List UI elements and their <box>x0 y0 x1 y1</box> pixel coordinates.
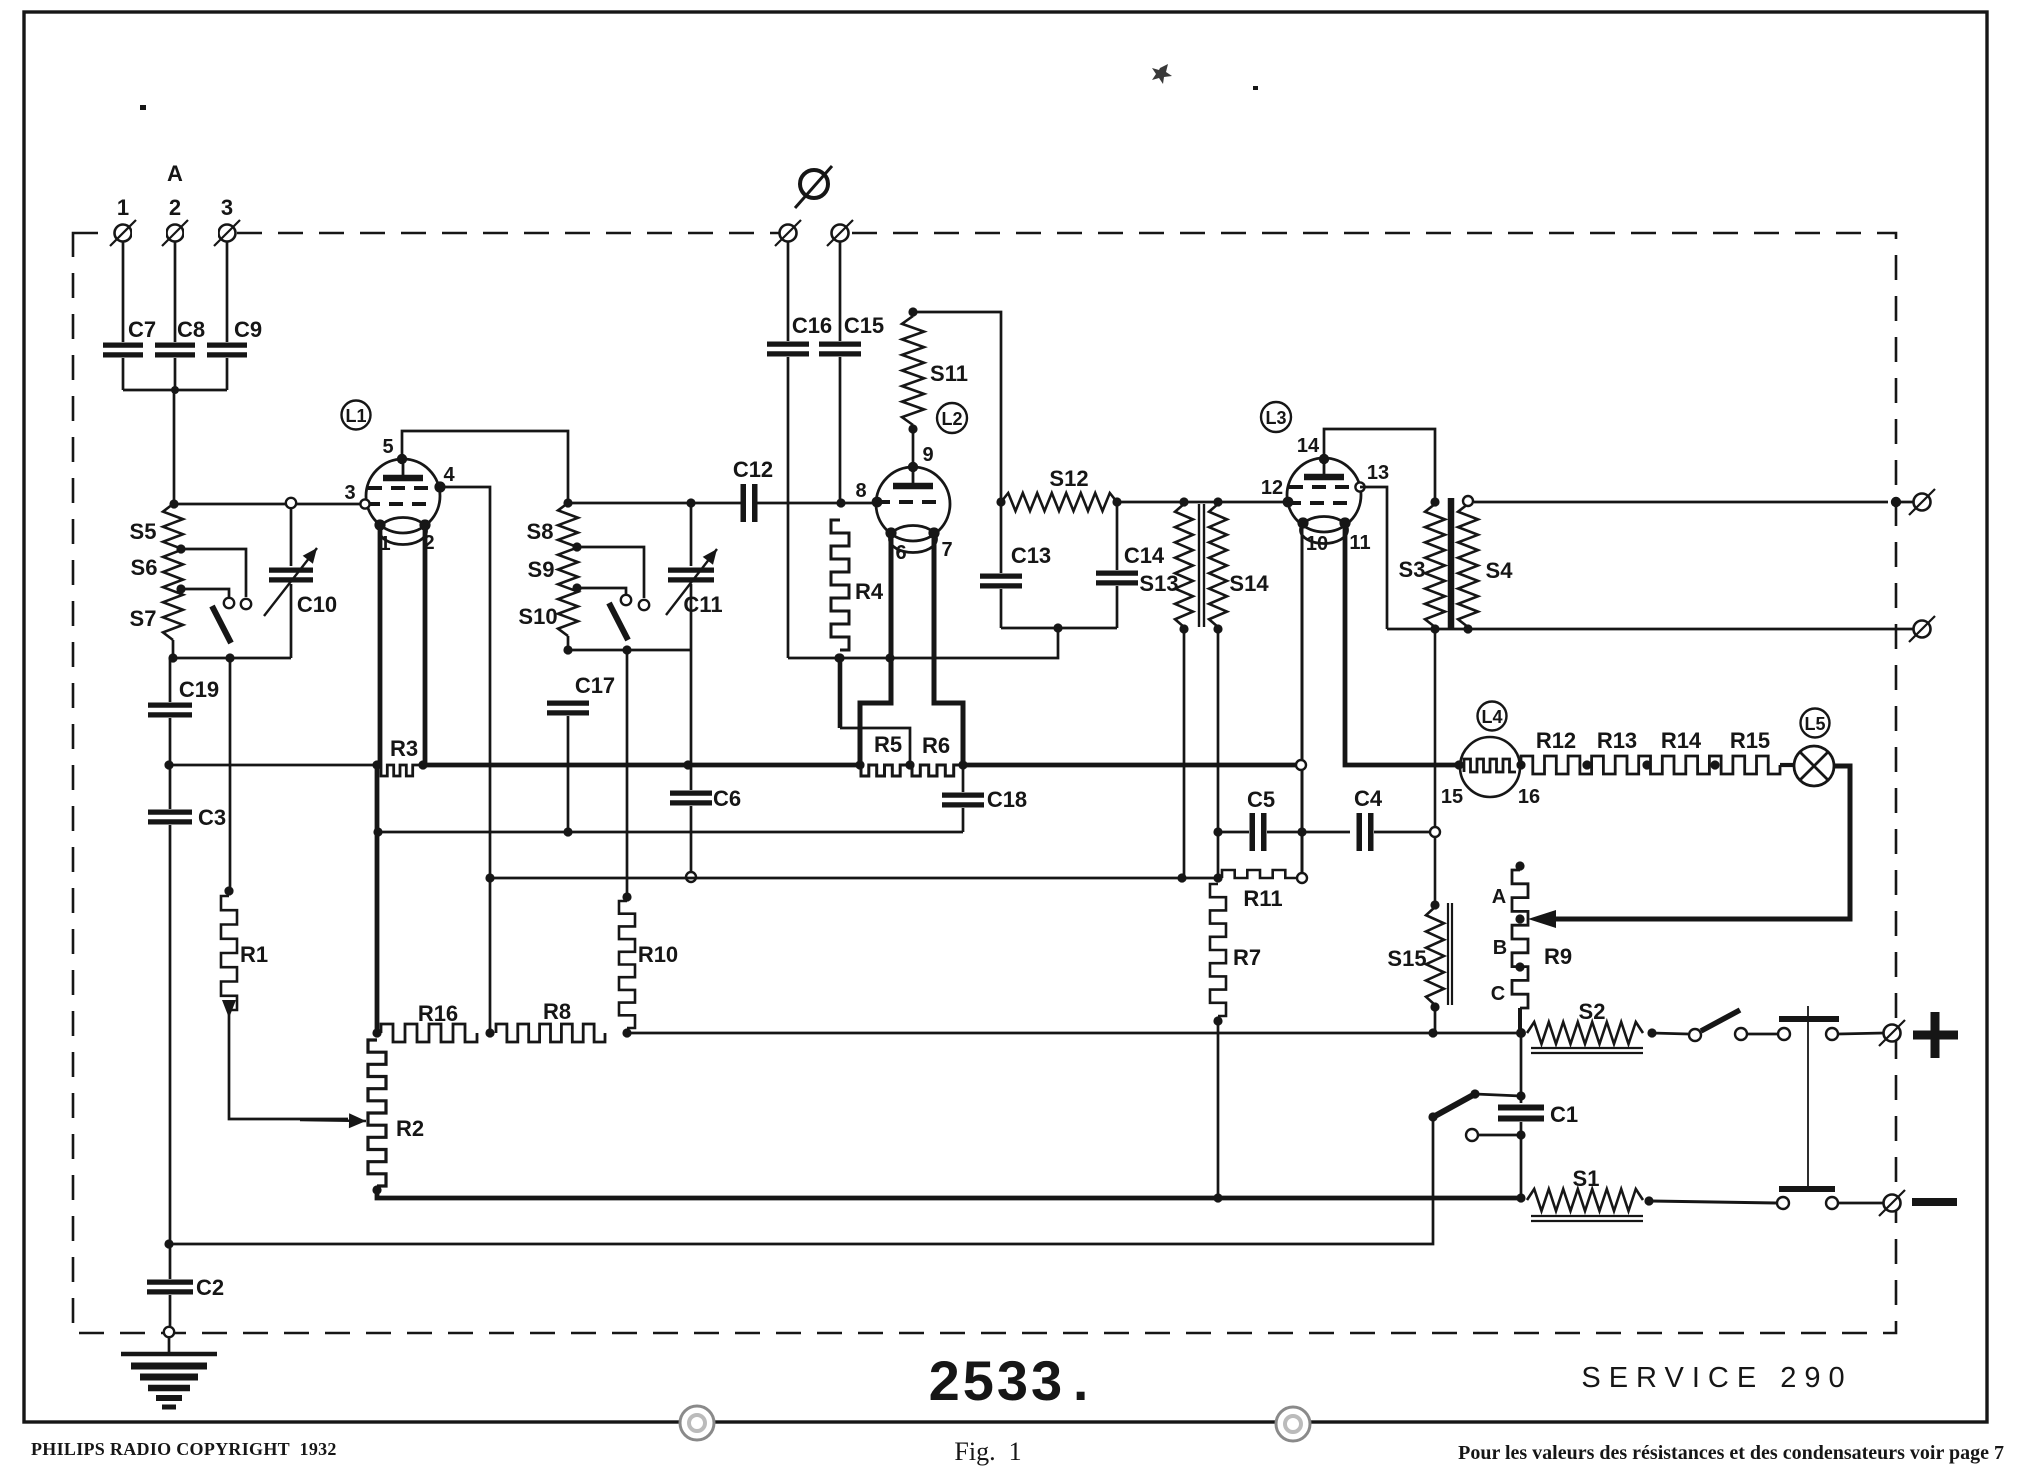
svg-text:R5: R5 <box>874 732 902 757</box>
wire <box>181 549 246 597</box>
node <box>225 653 234 662</box>
terminal 2 <box>162 220 188 246</box>
tube L2 <box>876 467 950 553</box>
svg-text:R8: R8 <box>543 999 571 1024</box>
wire <box>169 1244 172 1279</box>
svg-text:PHILIPS RADIO COPYRIGHT 1932: PHILIPS RADIO COPYRIGHT 1932 <box>31 1439 337 1459</box>
tube L1 pin 4 <box>434 481 445 492</box>
wire lamp loop <box>1540 766 1850 919</box>
switch contact <box>224 598 234 608</box>
node <box>372 760 381 769</box>
wire <box>567 716 570 832</box>
wire <box>839 241 842 341</box>
coil S15 <box>1426 907 1444 1005</box>
svg-text:13: 13 <box>1367 462 1389 484</box>
tube L3 pin 12 <box>1283 497 1294 508</box>
wire pin13 branch <box>1360 487 1387 629</box>
arrow into R2 <box>300 1113 366 1128</box>
svg-text:S12: S12 <box>1049 466 1088 491</box>
svg-text:14: 14 <box>1297 435 1320 457</box>
node <box>1516 1091 1525 1100</box>
svg-text:C13: C13 <box>1011 543 1051 568</box>
capacitor C8 <box>155 345 195 355</box>
terminal 3 <box>214 220 240 246</box>
capacitor C6 <box>670 793 712 803</box>
coil S1 core <box>1531 1216 1643 1221</box>
node <box>168 653 177 662</box>
tube L2 pin 7 <box>928 527 939 538</box>
node <box>1582 760 1591 769</box>
resistor R7 <box>1210 884 1226 1016</box>
tube L1 label <box>342 401 371 430</box>
resistor R16 <box>381 1024 477 1042</box>
svg-text:2533 .: 2533 . <box>929 1349 1092 1412</box>
capacitor C2 <box>147 1282 193 1292</box>
terminal output 2 <box>1909 616 1935 642</box>
node <box>1179 624 1188 633</box>
wire <box>1838 1033 1884 1034</box>
node <box>171 386 179 394</box>
chassis dashed boundary <box>73 233 1896 1333</box>
node <box>1644 1196 1653 1205</box>
resistor R10 <box>619 901 635 1028</box>
node <box>996 497 1005 506</box>
capacitor C5 <box>1252 813 1264 851</box>
wire <box>568 649 691 652</box>
svg-text:1: 1 <box>117 195 129 220</box>
coil S2 <box>1527 1022 1643 1044</box>
svg-text:7: 7 <box>941 539 952 561</box>
wire <box>1520 1035 1523 1103</box>
capacitor C15 <box>819 344 861 354</box>
svg-text:C10: C10 <box>297 592 337 617</box>
wire <box>1117 501 1288 504</box>
node <box>855 760 864 769</box>
node <box>885 653 894 662</box>
capacitor C7 <box>103 345 143 355</box>
wire <box>1520 1122 1523 1198</box>
coil S3 <box>1425 504 1445 627</box>
node <box>1430 900 1439 909</box>
speck <box>1152 64 1258 90</box>
node contact <box>1430 827 1440 837</box>
svg-text:Fig. 1: Fig. 1 <box>954 1437 1021 1466</box>
svg-text:L4: L4 <box>1481 707 1502 727</box>
wire bus mid <box>423 763 861 768</box>
svg-text:C12: C12 <box>733 457 773 482</box>
wire <box>1116 502 1119 570</box>
resistor R8 <box>496 1024 605 1042</box>
wire <box>690 650 693 765</box>
wire pin4 branch <box>440 487 490 1033</box>
wire <box>787 357 790 658</box>
coil S8 S9 S10 chain <box>558 503 578 636</box>
node <box>1213 497 1222 506</box>
wire <box>626 650 629 897</box>
switch lever C1 <box>1435 1094 1475 1116</box>
svg-text:S2: S2 <box>1579 999 1606 1024</box>
wire <box>169 825 172 1244</box>
svg-text:S10: S10 <box>518 604 557 629</box>
switch contact <box>639 600 649 610</box>
node <box>372 1028 381 1037</box>
node tap S8/S9 <box>572 542 581 551</box>
wire <box>840 728 910 762</box>
svg-text:R3: R3 <box>390 736 418 761</box>
node <box>1454 760 1463 769</box>
punch hole mark 2 <box>1276 1407 1310 1441</box>
svg-text:C8: C8 <box>177 317 205 342</box>
transformer core S3/S4 <box>1448 498 1455 630</box>
wire <box>577 547 644 598</box>
svg-text:8: 8 <box>855 480 866 502</box>
svg-text:3: 3 <box>344 482 355 504</box>
switch contact <box>1778 1028 1790 1040</box>
svg-text:S5: S5 <box>130 519 157 544</box>
node contact <box>686 872 696 882</box>
switch contact <box>621 595 631 605</box>
node <box>1710 760 1719 769</box>
terminal gramo 1 <box>775 220 801 246</box>
wire <box>912 429 915 465</box>
node <box>1430 497 1439 506</box>
arrow into R9 <box>1528 910 1556 928</box>
node <box>1428 1028 1437 1037</box>
wire <box>1747 1033 1778 1036</box>
node <box>1297 827 1306 836</box>
svg-text:S15: S15 <box>1387 946 1426 971</box>
wire <box>690 584 693 650</box>
wire <box>229 1014 348 1119</box>
wire <box>226 241 229 342</box>
node <box>908 307 917 316</box>
switch contact <box>241 599 251 609</box>
terminal gramo 2 <box>827 220 853 246</box>
node <box>683 760 692 769</box>
wire <box>181 589 229 597</box>
node <box>164 1239 173 1248</box>
resistor R2 <box>368 1040 386 1186</box>
node <box>1428 1112 1437 1121</box>
transformer core S13/S14 <box>1199 504 1204 627</box>
svg-text:S9: S9 <box>528 557 555 582</box>
minus sign <box>1912 1198 1957 1206</box>
wire <box>567 636 570 650</box>
svg-text:5: 5 <box>382 436 393 458</box>
coil S14 <box>1209 504 1227 627</box>
svg-text:12: 12 <box>1261 477 1283 499</box>
node <box>563 827 572 836</box>
capacitor C4 <box>1359 813 1371 851</box>
node <box>1179 497 1188 506</box>
svg-text:R4: R4 <box>855 579 884 604</box>
wire <box>577 588 626 594</box>
svg-text:C18: C18 <box>987 787 1027 812</box>
node tap S5/S6 <box>176 544 185 553</box>
wire <box>1780 763 1795 767</box>
resistor R1 wiper arrow <box>222 1000 236 1018</box>
node <box>1647 1028 1656 1037</box>
svg-text:2: 2 <box>169 195 181 220</box>
wire pin5 top loop <box>402 431 568 503</box>
svg-text:C4: C4 <box>1354 786 1383 811</box>
terminal output 1 <box>1909 489 1935 515</box>
dash mask <box>132 226 831 240</box>
node <box>905 760 914 769</box>
svg-text:C: C <box>1491 983 1505 1005</box>
resistor R12 R13 R14 R15 chain <box>1521 756 1780 774</box>
node tap B <box>1515 962 1524 971</box>
svg-text:L3: L3 <box>1265 408 1286 428</box>
lamp L5 <box>1794 746 1834 786</box>
node chassis entry <box>164 1327 174 1337</box>
node <box>1213 624 1222 633</box>
node <box>958 760 967 769</box>
node <box>1430 1002 1439 1011</box>
coil L4 label <box>1478 702 1507 731</box>
capacitor C10 arrow <box>264 548 317 616</box>
wire <box>1838 1202 1884 1205</box>
wire R5R6 tap <box>838 658 843 728</box>
node <box>485 873 494 882</box>
node <box>286 498 296 508</box>
wire line 1033 <box>627 1032 1521 1035</box>
wire <box>962 765 965 792</box>
tube L3 label <box>1261 402 1291 432</box>
node <box>1516 1193 1525 1202</box>
capacitor C16 <box>767 344 809 354</box>
switch contact <box>1466 1129 1478 1141</box>
svg-text:R2: R2 <box>396 1116 424 1141</box>
node <box>686 498 695 507</box>
wire <box>1475 1094 1521 1096</box>
wire <box>1518 1008 1522 1031</box>
node <box>1891 497 1901 507</box>
wire <box>172 640 175 658</box>
wire <box>1652 1033 1688 1034</box>
svg-text:9: 9 <box>922 444 933 466</box>
svg-text:C11: C11 <box>683 592 722 617</box>
svg-text:11: 11 <box>1349 532 1370 554</box>
capacitor C1 <box>1498 1108 1544 1119</box>
wire output top <box>1474 501 1888 504</box>
wire <box>173 657 291 660</box>
node <box>834 653 843 662</box>
node tap S9/S10 <box>572 583 581 592</box>
coil S12 <box>1001 493 1117 511</box>
svg-text:S13: S13 <box>1139 571 1178 596</box>
node <box>1516 760 1525 769</box>
wire <box>290 504 293 566</box>
wire <box>174 358 177 390</box>
resistor R1 <box>221 896 237 1010</box>
wire <box>169 1117 1433 1244</box>
svg-text:6: 6 <box>895 542 906 564</box>
switch contact <box>1826 1028 1838 1040</box>
wire pin14 loop <box>1324 429 1435 502</box>
wire <box>1000 589 1003 628</box>
node <box>836 498 845 507</box>
wire <box>122 241 125 342</box>
svg-text:R16: R16 <box>418 1001 458 1026</box>
svg-text:R1: R1 <box>240 942 268 967</box>
wire <box>168 1338 171 1352</box>
tube L2 pin 8 <box>872 497 883 508</box>
terminal mains + <box>1879 1020 1905 1046</box>
wire <box>1001 627 1117 630</box>
wire <box>1434 629 1437 903</box>
node <box>622 1028 631 1037</box>
node <box>1642 760 1651 769</box>
svg-text:S8: S8 <box>527 519 554 544</box>
tube L2 label <box>937 403 967 433</box>
wire <box>839 357 842 503</box>
svg-text:R10: R10 <box>638 942 678 967</box>
wire <box>690 806 693 871</box>
node <box>485 1028 494 1037</box>
svg-text:C7: C7 <box>128 317 156 342</box>
switch lever waveband <box>212 606 231 643</box>
capacitor C11 arrow <box>666 549 717 615</box>
svg-text:C17: C17 <box>575 673 615 698</box>
node <box>1463 624 1472 633</box>
switch pivot <box>1689 1029 1701 1041</box>
node <box>1213 1193 1222 1202</box>
wire bus right <box>963 763 1297 768</box>
wire line 832 <box>378 831 963 834</box>
wire <box>788 628 1058 658</box>
capacitor C19 <box>148 705 192 715</box>
wire line 832 right <box>1218 831 1249 834</box>
svg-text:A: A <box>1492 886 1506 908</box>
tube L1 pin 5 <box>397 454 407 464</box>
tube L3 pin 11 <box>1339 517 1350 528</box>
svg-text:L5: L5 <box>1804 714 1825 734</box>
coil S13 <box>1175 504 1193 627</box>
svg-text:C14: C14 <box>1124 543 1165 568</box>
node <box>622 892 631 901</box>
transformer core S15 <box>1448 903 1452 1005</box>
node <box>908 424 917 433</box>
node <box>563 498 572 507</box>
svg-text:C15: C15 <box>844 313 884 338</box>
node <box>835 653 844 662</box>
tube L1 pin 2 <box>419 519 430 530</box>
tube L3 <box>1287 458 1361 544</box>
wire <box>1896 501 1913 504</box>
coil S11 <box>902 316 924 425</box>
svg-text:4: 4 <box>443 464 455 486</box>
wire <box>173 503 364 506</box>
coil S5 S6 S7 chain <box>163 504 183 640</box>
wire <box>787 241 790 341</box>
node <box>1213 873 1222 882</box>
svg-text:16: 16 <box>1518 786 1540 808</box>
wire <box>169 718 172 765</box>
svg-text:S4: S4 <box>1486 558 1514 583</box>
wire <box>913 312 1001 502</box>
switch contact <box>1735 1028 1747 1040</box>
svg-text:R11: R11 <box>1243 886 1282 911</box>
capacitor C17 <box>547 703 589 713</box>
node crossing pin10 <box>1296 760 1306 770</box>
lamp L5 label <box>1801 709 1830 738</box>
wire <box>229 658 232 888</box>
wire <box>757 502 874 505</box>
wire <box>962 808 965 832</box>
wire <box>1434 1007 1437 1033</box>
coil S4 <box>1458 504 1478 627</box>
wire <box>690 503 693 566</box>
node <box>1430 624 1439 633</box>
svg-text:3: 3 <box>221 195 233 220</box>
svg-text:S6: S6 <box>131 555 158 580</box>
node <box>418 760 427 769</box>
svg-text:R15: R15 <box>1730 728 1770 753</box>
wire <box>568 502 741 505</box>
node <box>372 1185 381 1194</box>
wire <box>123 389 227 392</box>
wire <box>169 658 172 702</box>
wire bus left <box>169 764 378 767</box>
svg-text:C9: C9 <box>234 317 262 342</box>
resistor R3 <box>381 765 419 776</box>
wire <box>1183 629 1186 878</box>
tube L2 pin 9 <box>908 462 918 472</box>
svg-text:C2: C2 <box>196 1275 224 1300</box>
svg-text:B: B <box>1493 937 1507 959</box>
svg-text:C1: C1 <box>1550 1102 1578 1127</box>
node <box>373 827 382 836</box>
svg-text:C19: C19 <box>179 677 219 702</box>
plus sign <box>1913 1012 1958 1058</box>
node <box>164 760 173 769</box>
wire pin2 drop <box>423 525 428 765</box>
node <box>1213 1016 1222 1025</box>
node <box>1213 827 1222 836</box>
node <box>1053 623 1062 632</box>
capacitor C13 <box>980 576 1022 586</box>
svg-text:L2: L2 <box>941 409 962 429</box>
node <box>1177 873 1186 882</box>
ground <box>121 1354 217 1407</box>
svg-text:R14: R14 <box>1661 728 1702 753</box>
capacitor C9 <box>207 345 247 355</box>
wire <box>1478 1134 1521 1137</box>
node <box>1470 1089 1479 1098</box>
node <box>1516 1130 1525 1139</box>
svg-text:S7: S7 <box>130 606 157 631</box>
wire <box>1649 1201 1776 1203</box>
wire <box>122 358 125 390</box>
wire pin6 drop <box>860 533 891 764</box>
tube L1 pin 3 <box>360 499 369 508</box>
svg-text:R9: R9 <box>1544 944 1572 969</box>
wire <box>1000 502 1003 573</box>
variable capacitor C11 <box>668 570 714 580</box>
switch lever mains <box>1701 1010 1740 1031</box>
wire line 878 <box>490 877 1218 880</box>
resistor R5 <box>861 765 908 776</box>
svg-text:S14: S14 <box>1229 571 1269 596</box>
resistor R4 <box>831 520 849 650</box>
svg-text:SERVICE 290: SERVICE 290 <box>1581 1362 1852 1394</box>
node tap S6/S7 <box>176 584 185 593</box>
wire <box>1374 831 1430 834</box>
wire x377 drop <box>375 765 380 1036</box>
wire <box>226 358 229 390</box>
terminal mains - <box>1879 1190 1905 1216</box>
